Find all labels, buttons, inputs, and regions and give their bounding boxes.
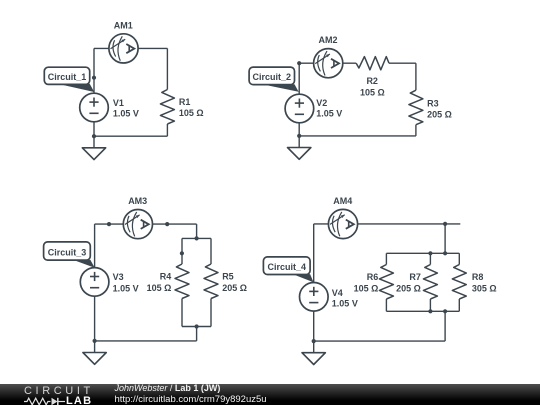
circuitlab logo symbol: [24, 395, 65, 405]
callout Circuit_3: [44, 242, 95, 268]
wire circuit3 left rail: [94, 224, 96, 341]
label R3 value: [427, 99, 452, 120]
svg-text:305 Ω: 305 Ω: [472, 283, 497, 293]
ground circuit4: [302, 341, 325, 364]
wire circuit4 R8 branch upper: [458, 253, 460, 264]
resistor R7: [423, 265, 437, 300]
logo resistor zigzag: [24, 398, 51, 405]
wire circuit2 top rail right: [389, 62, 416, 64]
svg-text:Circuit_1: Circuit_1: [48, 72, 87, 82]
node dot circuit3 R4 branch: [180, 251, 184, 255]
node dot circuit4 bottom bar feed: [443, 309, 447, 313]
svg-text:R8: R8: [472, 272, 484, 282]
svg-text:Circuit_2: Circuit_2: [253, 72, 292, 82]
label R7 value: [396, 272, 421, 293]
logo LAB: [66, 395, 92, 405]
node dot circuit3 bottom bar: [195, 324, 199, 328]
wire circuit3 bottom bar: [182, 326, 211, 328]
ground circuit3: [83, 341, 106, 364]
svg-text:205 Ω: 205 Ω: [427, 109, 452, 119]
svg-text:105 Ω: 105 Ω: [147, 283, 172, 293]
wire circuit4 R8 branch lower: [458, 299, 460, 311]
wire circuit3 R4 branch upper: [181, 238, 183, 264]
resistor R1: [160, 90, 174, 125]
wire circuit4 R6 branch lower: [385, 299, 387, 311]
wire circuit3 feed bottom: [196, 327, 198, 341]
label R1 value: [179, 97, 204, 118]
voltage source V4: [300, 283, 329, 312]
svg-text:105 Ω: 105 Ω: [179, 108, 204, 118]
wire circuit3 R4 branch lower: [181, 299, 183, 327]
svg-text:R2: R2: [366, 76, 378, 86]
svg-text:Circuit_3: Circuit_3: [48, 248, 87, 258]
label V2 value: [316, 98, 342, 118]
wire circuit2 right rail upper: [415, 63, 417, 90]
resistor R4: [175, 264, 189, 299]
logo diode: [52, 398, 58, 405]
wire circuit4 bottom rail: [314, 340, 445, 342]
wire circuit2 left rail: [298, 63, 300, 136]
svg-text:Circuit_4: Circuit_4: [268, 262, 307, 272]
node dot circuit3 bottom rail: [93, 339, 97, 343]
wire circuit4 R7 branch lower: [429, 299, 431, 311]
node dot circuit4 top bar feed: [443, 251, 447, 255]
label R8 value: [472, 272, 497, 293]
wire circuit3 bottom rail: [95, 340, 197, 342]
svg-text:1.05 V: 1.05 V: [316, 108, 342, 118]
wire circuit1 right rail lower: [166, 124, 168, 136]
wire circuit4 R7 branch upper: [429, 253, 431, 264]
resistor R8: [452, 265, 466, 300]
resistor R5: [204, 264, 218, 299]
node dot circuit2 top: [297, 61, 301, 65]
svg-text:V2: V2: [316, 98, 327, 108]
wire circuit4 R6 branch upper: [385, 253, 387, 264]
ground circuit2: [288, 136, 311, 159]
footer bar: [0, 384, 540, 405]
node dot circuit4 top rail: [443, 222, 447, 226]
node dot circuit2 bottom: [297, 134, 301, 138]
wire circuit4 left rail: [313, 224, 315, 341]
wire circuit1 top rail: [94, 47, 167, 49]
ammeter AM4: [328, 209, 357, 238]
svg-text:105 Ω: 105 Ω: [354, 283, 379, 293]
ammeter AM3: [123, 210, 152, 239]
svg-text:AM1: AM1: [114, 20, 133, 30]
wire circuit4 top bar: [386, 252, 459, 254]
resistor R6: [379, 265, 393, 300]
label R6 value: [354, 272, 379, 293]
svg-text:AM2: AM2: [318, 35, 337, 45]
wire circuit3 R5 branch lower: [210, 299, 212, 327]
svg-text:AM4: AM4: [333, 196, 352, 206]
wire circuit4 feed down: [444, 224, 446, 253]
label R2 value: [360, 76, 385, 97]
wire circuit2 right rail lower: [415, 125, 417, 136]
circuitlab logo text: [24, 385, 94, 397]
wire circuit3 top bar: [182, 237, 211, 239]
wire circuit1 left rail: [93, 48, 95, 136]
svg-text:V3: V3: [113, 272, 124, 282]
node dot circuit4 bottom rail: [312, 339, 316, 343]
node dot circuit3 ammeter right: [165, 222, 169, 226]
svg-text:105 Ω: 105 Ω: [360, 87, 385, 97]
wire circuit3 top rail: [95, 223, 197, 225]
callout Circuit_1: [44, 67, 94, 92]
voltage source V2: [285, 94, 314, 123]
node dot circuit3 top wire: [107, 222, 111, 226]
label V1 value: [113, 98, 139, 118]
callout Circuit_2: [249, 67, 299, 92]
svg-text:205 Ω: 205 Ω: [222, 283, 247, 293]
wire circuit4 feed bottom: [444, 311, 446, 341]
svg-text:1.05 V: 1.05 V: [113, 109, 139, 119]
wire circuit3 feed down: [196, 224, 198, 238]
callout Circuit_4: [263, 257, 313, 282]
footer url: [115, 394, 267, 405]
ammeter AM1: [109, 34, 138, 63]
wire circuit2 top rail: [299, 62, 356, 64]
svg-text:R1: R1: [179, 97, 191, 107]
node dot circuit1 left: [92, 76, 96, 80]
label V3 value: [113, 272, 139, 293]
ammeter AM2: [314, 49, 343, 78]
svg-text:R6: R6: [367, 272, 379, 282]
node dot circuit4 top bar R7: [428, 251, 432, 255]
wire circuit2 bottom rail: [299, 135, 416, 137]
label V4 value: [332, 288, 358, 308]
label R5 value: [222, 271, 247, 293]
svg-text:AM3: AM3: [128, 196, 147, 206]
svg-text:1.05 V: 1.05 V: [113, 283, 139, 293]
svg-text:V1: V1: [113, 98, 124, 108]
label R4 value: [147, 271, 172, 293]
wire circuit4 top rail: [314, 223, 461, 225]
footer title: [115, 383, 221, 393]
svg-text:R5: R5: [222, 271, 234, 281]
svg-text:205 Ω: 205 Ω: [396, 283, 421, 293]
svg-text:V4: V4: [332, 288, 343, 298]
wire circuit4 bottom bar: [386, 310, 459, 312]
resistor R3: [409, 90, 423, 125]
ground circuit1: [82, 136, 105, 159]
voltage source V1: [80, 93, 109, 122]
voltage source V3: [80, 268, 109, 297]
svg-text:R4: R4: [160, 271, 172, 281]
svg-text:R3: R3: [427, 99, 439, 109]
node dot circuit1 bottom: [92, 134, 96, 138]
node dot circuit4 bottom bar R7: [428, 309, 432, 313]
svg-text:R7: R7: [409, 272, 421, 282]
wire circuit3 R5 branch upper: [210, 238, 212, 264]
wire circuit1 bottom rail: [94, 135, 167, 137]
svg-text:1.05 V: 1.05 V: [332, 299, 358, 309]
node dot circuit3 top bar: [195, 236, 199, 240]
wire circuit1 right rail upper: [166, 48, 168, 89]
resistor R2: [356, 57, 389, 70]
